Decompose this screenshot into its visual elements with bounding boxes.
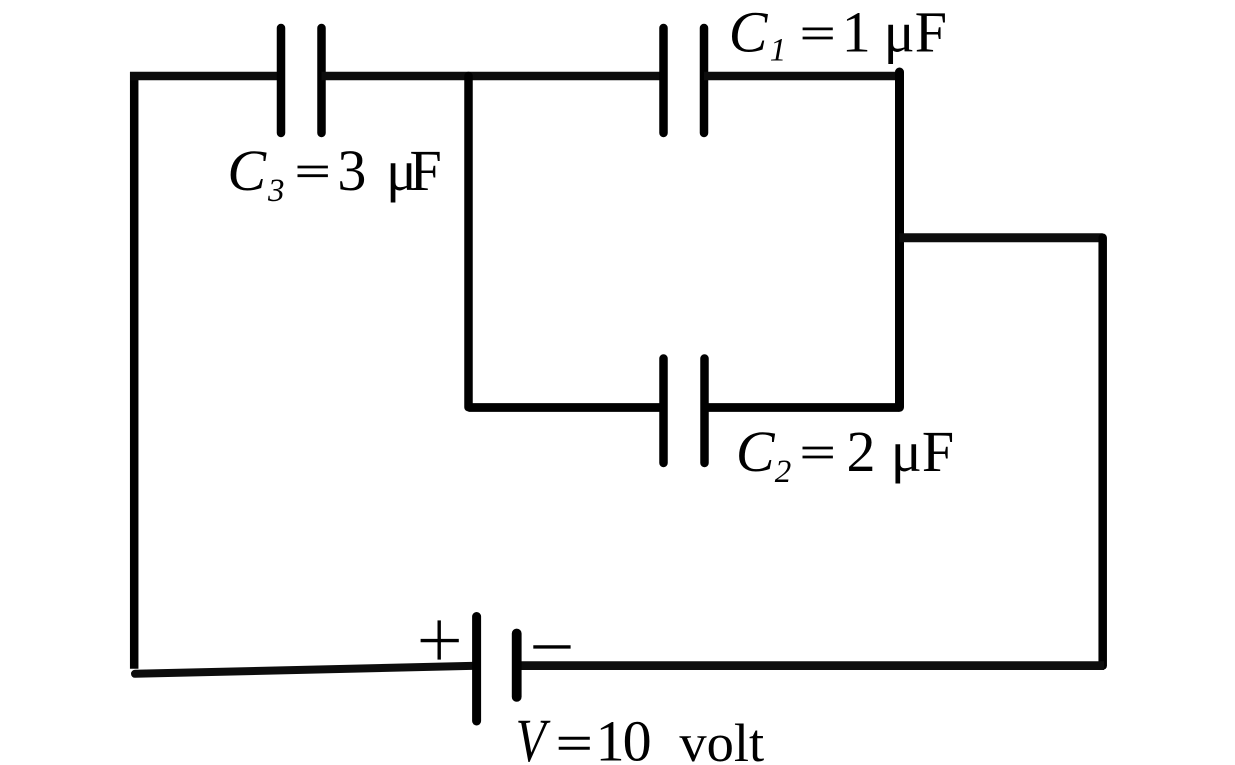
label V: equals bottom bar: [559, 747, 590, 750]
label C2: equals top bar: [803, 447, 833, 450]
wire: outer left vertical: [130, 72, 139, 669]
capacitor C3 right plate: [317, 28, 326, 133]
label C3: equals bottom bar: [298, 174, 328, 177]
capacitor C3 left plate: [277, 28, 286, 133]
svg-text:1: 1: [842, 0, 871, 65]
capacitor C2 left plate: [659, 359, 668, 464]
battery V negative short plate: [512, 634, 522, 697]
wire: top segment left of C3: [130, 72, 281, 81]
label V: equals top bar: [559, 737, 590, 740]
wire: inner-loop bottom, left of C2: [469, 403, 664, 412]
wire: top segment between C3 and C1: [322, 72, 664, 81]
battery plus sign vertical stroke: [438, 620, 441, 659]
label C2: equals bottom bar: [803, 456, 833, 459]
battery minus sign: [533, 645, 570, 648]
wire: bottom, right of battery: [517, 661, 1104, 670]
capacitor C1 right plate: [700, 28, 709, 133]
capacitor C1 left plate: [659, 28, 668, 133]
wire: bottom, left of battery (sloped): [135, 666, 477, 674]
svg-text:F: F: [410, 138, 442, 203]
wire: inner-loop right vertical: [895, 72, 904, 407]
svg-text:V: V: [516, 707, 551, 765]
label C1: equals top bar: [803, 27, 833, 30]
svg-text:μF: μF: [891, 419, 954, 484]
wire: tap from right node to outer right: [900, 233, 1103, 242]
svg-text:C: C: [729, 0, 769, 65]
svg-text:2: 2: [775, 454, 792, 490]
capacitor C2 right plate: [700, 359, 709, 464]
label C1: equals bottom bar: [803, 37, 833, 40]
wire: inner-loop left vertical: [464, 76, 473, 407]
battery V positive long plate: [472, 617, 481, 722]
battery plus sign horizontal stroke: [421, 639, 459, 642]
svg-text:3: 3: [337, 138, 366, 203]
wire: outer right vertical: [1098, 238, 1107, 666]
svg-text:10: 10: [596, 709, 650, 765]
svg-text:C: C: [736, 419, 776, 484]
wire: top segment right of C1: [704, 72, 904, 81]
svg-text:2: 2: [847, 419, 876, 484]
svg-text:C: C: [227, 138, 267, 203]
svg-text:1: 1: [770, 33, 787, 69]
svg-text:3: 3: [267, 173, 285, 209]
svg-text:μF: μF: [884, 0, 947, 65]
wire: inner-loop bottom, right of C2: [705, 403, 900, 412]
svg-text:volt: volt: [679, 712, 764, 765]
label C3: equals top bar: [298, 166, 328, 169]
